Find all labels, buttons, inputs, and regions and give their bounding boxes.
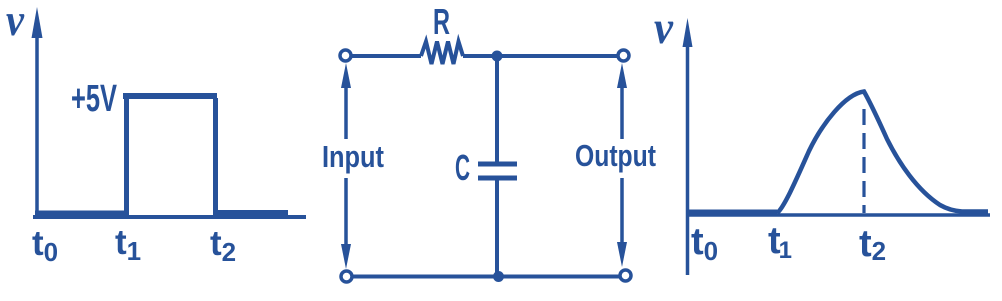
junction node bottom <box>493 271 504 282</box>
wire top-left to resistor <box>351 54 421 58</box>
left graph t-axis <box>33 215 306 219</box>
svg-text:t0: t0 <box>691 221 718 266</box>
svg-text:Output: Output <box>575 138 656 173</box>
bottom wire <box>352 275 620 279</box>
left graph zero-level trace after t2 <box>214 210 288 215</box>
input arrow lower <box>344 178 348 250</box>
wire capacitor to bottom <box>495 180 499 276</box>
svg-text:t0: t0 <box>32 224 58 267</box>
right graph v-axis <box>686 44 690 275</box>
terminal bottom-left <box>341 271 352 282</box>
terminal top-right <box>618 50 629 61</box>
left graph zero-level trace t0-t1 <box>35 211 127 216</box>
svg-text:t2: t2 <box>210 224 236 267</box>
left graph v-axis <box>35 36 39 217</box>
svg-text:t1: t1 <box>768 220 792 264</box>
output arrow lower <box>620 178 624 248</box>
right graph charge-discharge curve <box>777 92 988 214</box>
junction node top <box>492 51 503 62</box>
svg-text:v: v <box>654 2 674 54</box>
output arrow upper <box>620 80 624 139</box>
input arrow upper <box>344 80 348 139</box>
left graph v-axis arrowhead <box>32 7 43 38</box>
svg-text:t1: t1 <box>115 223 141 266</box>
right graph zero-level trace t0-t1 <box>688 210 777 215</box>
terminal bottom-right <box>620 270 631 281</box>
resistor R <box>421 42 463 65</box>
capacitor C bottom plate <box>478 176 517 181</box>
svg-text:Input: Input <box>322 139 384 174</box>
svg-text:+5V: +5V <box>71 78 117 120</box>
terminal top-left <box>340 50 351 61</box>
svg-text:t2: t2 <box>859 223 886 266</box>
svg-text:R: R <box>433 1 450 42</box>
right graph t-axis <box>686 213 990 217</box>
right graph dashed line at t2 <box>862 109 865 213</box>
wire resistor to top-right <box>463 54 619 58</box>
left graph pulse waveform <box>124 98 129 216</box>
svg-text:v: v <box>6 0 25 45</box>
svg-text:C: C <box>455 147 470 188</box>
wire junction to capacitor <box>495 56 499 163</box>
capacitor C top plate <box>478 162 517 167</box>
right graph v-axis arrowhead <box>683 18 693 47</box>
